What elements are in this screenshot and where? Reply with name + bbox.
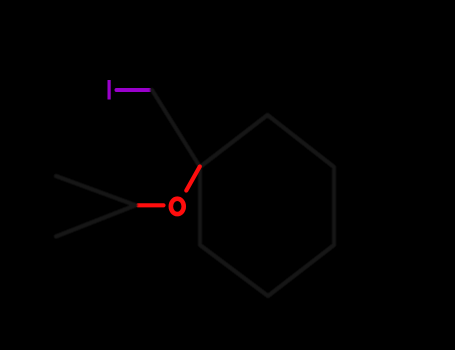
isopropyl CH-CH3 upper (56, 176, 136, 205)
bond CH2-C1 (152, 90, 200, 167)
bond O-CH iPr (red) (138, 203, 164, 207)
isopropyl CH-CH3 lower (56, 205, 136, 236)
bond C1-O (red) (186, 167, 200, 191)
cyclohexane ring (200, 115, 334, 296)
bond I-CH2 (purple) (117, 88, 150, 92)
iodine atom label I (108, 80, 111, 100)
oxygen atom label O (171, 199, 184, 214)
